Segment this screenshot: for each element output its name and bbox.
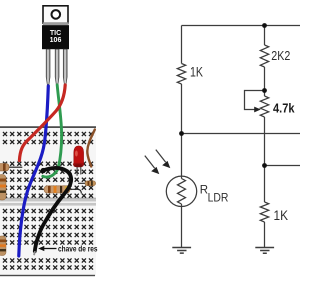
LDR circle [166,176,196,206]
bent brown wire right of LED [87,130,95,167]
wire: top rail [182,25,301,27]
breadboard contact holes [3,132,93,270]
potentiometer wiper loop [245,91,265,110]
wire: pot to lower node [264,117,266,202]
ground under LDR [172,248,191,254]
wire: LDR to ground [181,207,183,248]
potentiometer wiper arrowhead [254,107,261,113]
svg-text:106: 106 [50,37,62,44]
svg-text:1K: 1K [274,208,289,223]
potentiometer P1 4.7k resistor body [260,96,268,117]
wire: right branch top [264,26,266,46]
thyristor legs [46,49,67,84]
resistor R1 1K (left) [177,64,185,85]
red jumper wire [19,85,65,161]
svg-text:LDR: LDR [208,193,229,205]
junction dot pot top [262,88,267,93]
label pot value 4.7k [273,100,295,115]
ground under R4 [255,248,274,254]
wire: left branch top [181,26,183,64]
resistor across channel (horizontal, with leads) [39,186,82,194]
light arrow 2 [156,150,166,163]
LDR internal resistor [181,176,183,178]
small resistor right of channel [78,181,96,186]
wire: R4 to ground [264,222,266,248]
svg-text:1K: 1K [190,64,203,79]
thyristor TIC106 body [42,25,69,49]
wire: R2 to pot [264,67,266,96]
svg-text:chave de res: chave de res [58,244,98,253]
resistor on left edge (vertical upper) [0,175,6,201]
breadboard center channel [0,198,96,206]
resistor on left edge (vertical lower) [0,236,6,256]
svg-text:TIC: TIC [50,30,61,37]
resistor on left edge (horizontal) [0,164,22,171]
arrowhead light 1 [151,167,159,174]
svg-text:2K2: 2K2 [271,48,290,63]
light arrow 1 [145,156,155,169]
svg-text:4.7k: 4.7k [273,100,295,115]
label R4 value 1K [274,208,289,223]
resistor R2 2K2 [260,45,268,67]
junction dot right lower [262,163,267,168]
resistor R4 1K (right bottom) [260,202,268,222]
black jumper wire (reset switch) [34,168,71,255]
label chave de res [58,244,98,253]
arrow to black wire [38,246,56,251]
wire: lower right rail [265,165,301,167]
junction dot left middle [179,131,184,136]
label R1 value 1K [190,64,203,79]
wire: middle rail [182,133,301,135]
wire: left branch middle [181,84,183,176]
LED (red) [73,146,84,176]
label R_LDR [200,185,229,205]
junction dot top [262,23,267,28]
tab mounting hole [52,10,61,19]
label R2 value 2K2 [271,48,290,63]
thyristor TIC106 metal tab [43,6,69,26]
blue jumper wire [19,86,49,256]
arrowhead light 2 [162,161,170,168]
green jumper wire [43,85,62,177]
breadboard body [0,126,96,276]
